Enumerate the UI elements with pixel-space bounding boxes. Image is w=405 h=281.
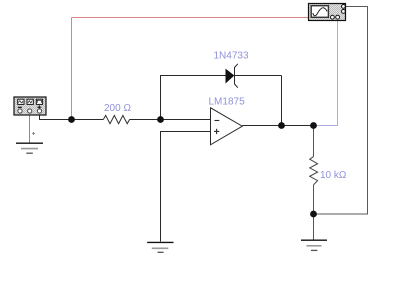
op-amp U1 LM1875 triangle [211, 108, 243, 145]
junction node D [310, 122, 317, 129]
oscilloscope XSC1 body [309, 4, 346, 21]
wire feedback: node B up, across top through zener, down to node C [161, 76, 226, 120]
wire plus input: from middle vertical to op-amp non-inverting input [161, 132, 211, 242]
op-amp minus sign [215, 120, 220, 122]
oscilloscope screen sine trace [313, 8, 327, 16]
function generator XFG1 body [14, 97, 46, 115]
wire node E right and up to oscilloscope right terminal [314, 7, 368, 215]
junction node C [278, 122, 285, 129]
function generator triangle button [27, 99, 33, 104]
svg-text:200 Ω: 200 Ω [104, 103, 131, 114]
wire from function generator + terminal down then right to node A [40, 112, 72, 120]
wire resistor R2 bottom lead to node E [313, 185, 315, 214]
ground symbol left (below function generator) [16, 143, 43, 153]
wire red scope channel A: horizontal top to oscilloscope left [72, 17, 309, 19]
oscilloscope bottom terminals [331, 15, 335, 19]
wire resistor R1 right lead to node B and on to op-amp inverting input [130, 119, 211, 121]
wire lavender scope channel B: from node D right then up to scope bottom terminal [314, 21, 338, 126]
junction node A [68, 116, 75, 123]
wire node E down to ground [313, 214, 315, 240]
function generator square button [36, 99, 42, 104]
svg-text:LM1875: LM1875 [209, 97, 246, 108]
ground symbol middle (non-inverting input) [147, 242, 173, 252]
wire node A to resistor R1 left lead [72, 119, 104, 121]
junction node E [310, 211, 317, 218]
ground symbol right (output load) [301, 240, 327, 250]
wire function generator common terminal to ground (gray) [29, 112, 31, 143]
op-amp plus sign [214, 129, 219, 134]
function generator minus polarity mark [18, 106, 22, 108]
zener diode D1 triangle (anode) [226, 69, 234, 82]
svg-text:1N4733: 1N4733 [214, 51, 249, 62]
wire node D down to resistor R2 top lead [313, 126, 315, 157]
function generator sine button [18, 99, 24, 104]
junction node B [157, 116, 164, 123]
wire op-amp output to node C, node D [242, 125, 313, 127]
wire red scope channel A: vertical from node A up [71, 18, 73, 120]
resistor R2 10k zigzag (vertical) [310, 157, 318, 185]
tiny gray plus mark near generator wire [32, 132, 35, 135]
resistor R1 200 ohm zigzag [103, 115, 129, 123]
oscilloscope screen [311, 6, 328, 18]
function generator terminals [18, 109, 22, 113]
zener diode D1 cathode bar with bent ends [235, 64, 238, 88]
function generator plus polarity mark [37, 106, 41, 108]
svg-text:10 kΩ: 10 kΩ [320, 170, 347, 181]
oscilloscope right terminals [342, 5, 346, 9]
